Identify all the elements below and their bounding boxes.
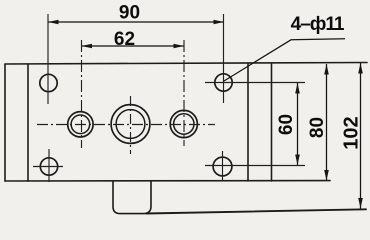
bottom-right hole vertical centerline (222, 151, 224, 181)
top-left hole vertical / 90 ext (47, 14, 49, 104)
dim line 102 (360, 63, 362, 209)
bottom hole row line / 60 ext (205, 165, 305, 167)
arrow 60 top (295, 83, 300, 94)
dim line 90 (48, 21, 224, 23)
svg-text:80: 80 (307, 117, 328, 138)
arrow 90 right (214, 20, 225, 25)
center port vertical centerline (130, 96, 132, 154)
corner hole bottom-right (213, 157, 232, 176)
arrow 102 top (358, 63, 363, 74)
corner hole bottom-left (40, 158, 57, 175)
arrow 62 left (82, 44, 93, 49)
dim line 62 (82, 45, 185, 47)
svg-text:90: 90 (119, 2, 140, 23)
svg-text:4–ф11: 4–ф11 (291, 14, 345, 35)
bottom tab (113, 181, 151, 213)
arrow 62 right (174, 44, 185, 49)
corner hole top-left (40, 74, 57, 91)
arrow 90 left (48, 20, 59, 25)
port circle right (outer+inner) (170, 110, 197, 137)
corner hole top-right (215, 74, 232, 91)
body right edge (271, 64, 273, 182)
svg-text:62: 62 (114, 29, 135, 50)
dim line 80 (326, 64, 328, 181)
horizontal main centerline (37, 124, 215, 126)
arrow 80 top (324, 64, 329, 75)
dim line 60 (297, 83, 299, 165)
arrow 80 bottom (324, 170, 329, 181)
leader line 4-ф11 (224, 39, 345, 81)
body bottom edge (with extension to right) (5, 180, 330, 182)
body inner-right line (247, 64, 249, 182)
bottom-left hole horizontal centerline (33, 166, 63, 168)
body top edge (with extension to right) (5, 63, 367, 65)
body left edge (4, 64, 6, 181)
port circle center (outer+inner) (111, 105, 150, 144)
top-right hole vertical / 90 ext (223, 14, 225, 103)
top hole row line / 60 ext (205, 82, 305, 84)
left port vertical centerline / 62 ext (81, 40, 83, 148)
svg-text:60: 60 (276, 114, 297, 135)
svg-text:102: 102 (341, 116, 363, 149)
port circle left (outer+inner) (68, 112, 93, 137)
bottom extension line (tab bottom to 102 dim) (146, 209, 366, 213)
arrow 102 bottom (358, 198, 363, 209)
arrow 60 bottom (295, 155, 300, 166)
body inner-left line (27, 64, 29, 181)
bottom-left hole vertical centerline (48, 149, 50, 182)
right port vertical centerline / 62 ext (183, 40, 185, 146)
